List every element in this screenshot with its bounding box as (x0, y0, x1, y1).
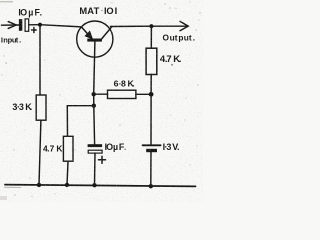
resistor R4 4.7K (body) (63, 136, 73, 161)
resistor R1 3.3K (body) (36, 95, 46, 120)
wire node D to R3 6.8K (94, 93, 108, 95)
capacitor C1 10uF (input, electrolytic: solid left plate, hollow right plate) (19, 19, 29, 31)
wire node B to R2 (150, 26, 152, 48)
junction dot node A (38, 23, 42, 27)
ground rail echo (scan artifact) (5, 186, 22, 188)
wire C2 to ground rail (94, 153, 97, 185)
junction dot node B (149, 24, 153, 28)
wire node C down to battery (150, 94, 152, 144)
transistor Q1 collector lead (102, 27, 113, 40)
transistor Q1 base bar (87, 39, 102, 42)
wire node A to emitter of Q1 (40, 25, 81, 27)
wire node D to node E to C2 (93, 94, 96, 144)
wire node A down to R1 3.3K (39, 25, 41, 95)
wire battery to ground rail (150, 152, 152, 186)
wire down to R4 4.7K (66, 106, 68, 137)
grain overlay (0, 0, 203, 202)
junction dot R1-ground (37, 183, 41, 187)
plus polarity mark C2 (99, 156, 106, 163)
ground rail (bottom bus) (5, 185, 196, 187)
battery B1 1.3V (short thick plate) (146, 149, 157, 152)
wire collector to node B (111, 25, 152, 27)
wire C1 to node A (29, 24, 40, 26)
junction dot C2-ground (92, 183, 96, 187)
transistor Q1 MAT101 (circle) (77, 21, 113, 57)
wire R3 to node C (136, 93, 151, 95)
transistor Q1 base lead down to node D (94, 41, 95, 94)
resistor R2 4.7K (body) (146, 48, 157, 74)
plus polarity mark C1 (32, 27, 37, 32)
wire R4 to ground rail (67, 161, 68, 185)
speck under 4.7K right label (171, 64, 173, 66)
input arrow (2, 22, 19, 29)
transistor Q1 emitter lead with arrow (81, 27, 92, 39)
junction dot node C (149, 92, 154, 97)
junction dot battery-ground (149, 184, 153, 188)
wire R2 to node C (150, 75, 152, 95)
output arrow (151, 21, 188, 30)
junction dot node E (base bypass tap) (92, 104, 96, 108)
junction dot R4-ground (65, 183, 69, 187)
paper grain speckles (0, 1, 201, 200)
battery B1 1.3V (long plate) (143, 144, 161, 146)
wire R1 to ground rail (39, 120, 41, 185)
capacitor C2 10uF (bypass, solid top plate, hollow bottom plate) (88, 144, 103, 153)
wire node E to R4 branch (67, 105, 94, 107)
junction dot node D (base / 6.8K) (92, 92, 96, 96)
resistor R3 6.8K (body) (108, 90, 136, 98)
